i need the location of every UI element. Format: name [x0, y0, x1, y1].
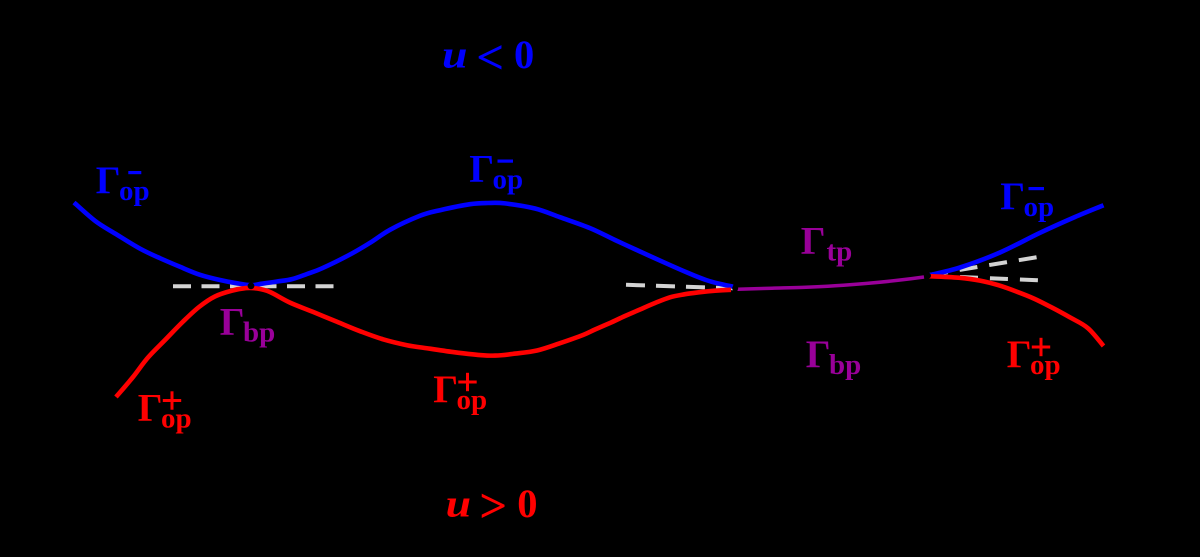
puncture dot at left branch point [248, 283, 255, 290]
svg-text:<: < [476, 29, 504, 84]
svg-text:tp: tp [827, 236, 853, 268]
svg-text:u: u [446, 483, 472, 526]
puncture dot at middle merge point [732, 285, 738, 291]
label Gamma_bp below merged branch (purple) [806, 333, 862, 381]
dashed tangent line at left branch point [173, 284, 335, 288]
label Gamma_op^- top left (blue) [96, 159, 150, 207]
svg-text:0: 0 [517, 481, 537, 526]
dashed upper tangent ray at right split point [930, 257, 1037, 275]
svg-text:>: > [479, 478, 507, 533]
svg-text:Γ: Γ [469, 148, 494, 191]
svg-text:op: op [1030, 349, 1061, 381]
svg-text:Γ: Γ [1000, 175, 1025, 218]
label Gamma_op^- top middle (blue) [469, 148, 523, 196]
label Gamma_op^- top right (blue) [1000, 175, 1054, 223]
label Gamma_bp left branch point (purple) [220, 301, 276, 349]
svg-text:op: op [161, 403, 192, 435]
svg-text:op: op [119, 175, 150, 207]
curve Gamma_op^+ red right arc [929, 276, 1104, 346]
label u < 0 (blue) [442, 29, 534, 84]
label Gamma_op^+ bottom middle (red) [433, 368, 487, 416]
svg-text:0: 0 [514, 32, 534, 77]
label Gamma_op^+ right (red) [1007, 333, 1061, 381]
svg-text:Γ: Γ [801, 220, 826, 263]
curve Gamma_op^- upper blue branch (left and middle arcs) [74, 203, 733, 287]
svg-text:Γ: Γ [138, 387, 163, 430]
svg-text:bp: bp [243, 317, 275, 349]
svg-text:op: op [457, 384, 488, 416]
label Gamma_op^+ bottom left (red) [138, 387, 192, 435]
svg-text:Γ: Γ [1007, 333, 1032, 376]
svg-text:u: u [442, 34, 468, 77]
svg-text:Γ: Γ [96, 159, 121, 202]
svg-text:bp: bp [829, 349, 861, 381]
dashed tangent line left of middle merge point [626, 285, 734, 289]
dashed lower tangent ray at right split point [930, 276, 1038, 281]
puncture dot at right split point [925, 273, 931, 279]
svg-text:op: op [1024, 191, 1055, 223]
curve Gamma_op^+ lower red branch (left and middle arcs) [116, 288, 731, 397]
curve Gamma_op^- blue right arc [929, 205, 1104, 275]
svg-text:Γ: Γ [806, 333, 831, 376]
svg-text:op: op [493, 164, 524, 196]
label Gamma_tp above merged branch (purple) [801, 220, 853, 268]
label u > 0 (red) [446, 478, 538, 533]
curve Gamma_tp/Gamma_bp purple merged branch [738, 277, 925, 289]
svg-text:Γ: Γ [433, 368, 458, 411]
svg-text:Γ: Γ [220, 301, 245, 344]
